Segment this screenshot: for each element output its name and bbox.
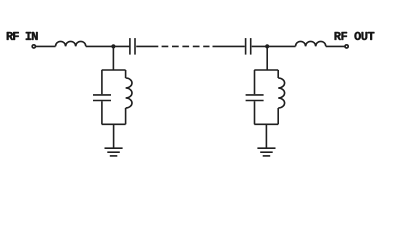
wire ground stem 2: [265, 124, 267, 148]
wire: [326, 45, 345, 47]
ground 1: [105, 148, 123, 156]
wire: [277, 108, 279, 124]
inductor L3 (shunt tank 1): [126, 78, 132, 108]
wire: [86, 45, 130, 47]
terminal RF OUT: [345, 45, 348, 48]
wire shunt stem 2: [266, 46, 268, 70]
wire ground stem 1: [113, 124, 115, 148]
wire shunt stem 1: [112, 46, 114, 70]
wire: [36, 45, 56, 47]
capacitor C1 (series): [129, 38, 131, 55]
node junction 2: [265, 44, 269, 48]
wire tank1 left: [101, 70, 103, 94]
capacitor C2 (series): [245, 38, 247, 55]
node RF IN label: [7, 32, 38, 40]
wire tank2 left: [254, 70, 256, 94]
node junction 1: [111, 44, 115, 48]
wire tank2 top bar: [254, 69, 278, 71]
wire tank1 bottom bar: [102, 123, 126, 125]
inductor L4 (shunt tank 2): [278, 78, 284, 108]
capacitor C4 (shunt tank 2): [246, 94, 264, 96]
terminal RF IN: [32, 45, 35, 48]
wire: [101, 101, 103, 124]
node RF OUT label: [335, 32, 375, 40]
wire tank1 top bar: [102, 69, 126, 71]
wire: [213, 45, 245, 47]
wire tank2 bottom bar: [254, 123, 278, 125]
wire tank2 right: [277, 70, 279, 78]
ground 2: [257, 148, 275, 156]
wire: [125, 108, 127, 124]
capacitor C3 (shunt tank 1): [93, 94, 111, 96]
wire: [254, 101, 256, 124]
wire dashed (omitted sections): [162, 45, 210, 47]
inductor L2: [296, 41, 326, 46]
wire: [252, 45, 296, 47]
inductor L1: [55, 41, 85, 46]
wire tank1 right: [125, 70, 127, 78]
wire: [136, 45, 158, 47]
